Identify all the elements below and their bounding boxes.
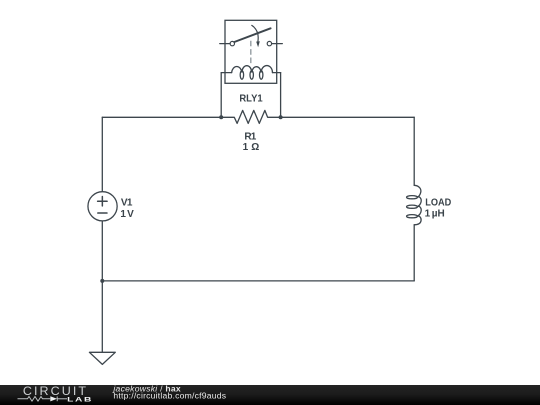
wire ground stem (101, 281, 103, 352)
relay RLY1 coil loop 1 (240, 71, 243, 80)
svg-text:V1: V1 (121, 198, 133, 209)
relay RLY1 coil left terminal wire (221, 72, 231, 74)
inductor LOAD loop 1 (407, 196, 418, 199)
inductor LOAD loop 3 (407, 215, 418, 218)
node junction dot left of R1 (219, 115, 223, 119)
CircuitLab logo diode cathode bar (56, 396, 58, 401)
relay RLY1 coil loop 3 (260, 71, 263, 80)
svg-text:1µH: 1µH (425, 209, 445, 220)
node junction dot ground (100, 279, 104, 283)
svg-text:1Ω: 1Ω (243, 142, 260, 153)
relay RLY1 left coil lead (220, 73, 222, 118)
CircuitLab logo resistor zigzag wire (18, 397, 51, 402)
voltage source V1 plus sign (98, 197, 108, 206)
relay RLY1 switch right stub (272, 43, 283, 45)
inductor LOAD loop 2 (407, 205, 418, 208)
inductor LOAD top hook (414, 185, 421, 197)
svg-text:http://circuitlab.com/cf9auds: http://circuitlab.com/cf9auds (113, 391, 226, 401)
wire left vertical (V1 bottom to bottom wire) (101, 221, 103, 281)
wire right vertical (inductor to bottom wire) (413, 225, 415, 281)
relay RLY1 box (225, 20, 277, 83)
relay RLY1 coil loop 2 (250, 71, 253, 80)
inductor LOAD bottom hook (414, 216, 421, 225)
wire left vertical (top corner to V1 top) (101, 117, 103, 191)
relay RLY1 switch left stub (220, 43, 230, 45)
svg-text:1V: 1V (120, 209, 134, 220)
wire top: left corner to left junction (102, 116, 221, 118)
relay RLY1 right coil lead (280, 73, 282, 118)
relay RLY1 dashed actuator line (250, 41, 252, 65)
relay RLY1 switch arm (234, 28, 270, 42)
inductor LOAD arc 1-2 (417, 197, 421, 207)
relay RLY1 coil (232, 66, 273, 73)
svg-text:R1: R1 (244, 131, 256, 142)
CircuitLab logo diode triangle (50, 396, 57, 401)
relay RLY1 switch right terminal circle (267, 41, 271, 45)
node junction dot right of R1 (279, 115, 283, 119)
wire bottom (102, 280, 414, 282)
footer bar (0, 385, 540, 405)
svg-text:RLY1: RLY1 (239, 93, 263, 104)
ground symbol triangle (89, 352, 115, 364)
svg-text:LAB: LAB (67, 395, 93, 403)
inductor LOAD arc 2-3 (417, 206, 421, 216)
relay RLY1 coil right terminal wire (273, 72, 281, 74)
voltage source V1 circle (88, 192, 117, 221)
wire top: right junction to right corner (281, 116, 415, 118)
relay RLY1 switch left terminal circle (230, 41, 234, 45)
CircuitLab logo wire to LAB (57, 398, 67, 400)
relay RLY1 arrowhead (256, 41, 260, 47)
wire right vertical (top corner to inductor) (413, 117, 415, 185)
resistor R1 (221, 110, 280, 123)
relay RLY1 actuation arrow arc (252, 25, 258, 41)
svg-text:LOAD: LOAD (425, 198, 451, 209)
voltage source V1 minus sign (98, 212, 107, 214)
